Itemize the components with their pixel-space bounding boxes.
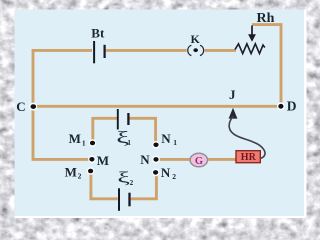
svg-text:K: K	[191, 32, 201, 46]
svg-text:HR: HR	[241, 152, 257, 163]
svg-text:2: 2	[130, 179, 134, 187]
svg-text:J: J	[229, 87, 236, 102]
svg-text:N: N	[140, 152, 150, 167]
svg-text:M: M	[65, 164, 77, 179]
svg-text:1: 1	[82, 138, 86, 147]
svg-text:Bt: Bt	[91, 26, 105, 41]
svg-text:1: 1	[173, 138, 177, 147]
svg-text:Rh: Rh	[257, 11, 275, 26]
svg-text:M: M	[97, 153, 109, 168]
svg-text:G: G	[195, 156, 203, 167]
svg-text:ξ: ξ	[117, 168, 129, 186]
svg-text:M: M	[69, 131, 81, 146]
svg-text:N: N	[161, 131, 171, 146]
svg-text:N: N	[161, 165, 171, 180]
svg-text:C: C	[16, 99, 25, 114]
svg-text:1: 1	[127, 139, 131, 147]
svg-text:2: 2	[78, 171, 82, 180]
svg-text:D: D	[287, 99, 297, 114]
svg-text:2: 2	[172, 172, 176, 181]
